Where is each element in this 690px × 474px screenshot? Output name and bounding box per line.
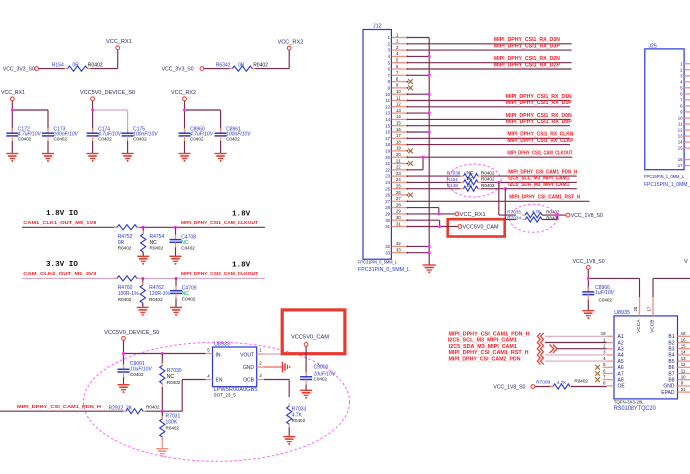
ground under C9000 — [300, 390, 312, 398]
svg-text:32: 32 — [385, 244, 390, 249]
svg-text:I2C5_SCL_M3_MIPI_CAM1: I2C5_SCL_M3_MIPI_CAM1 — [508, 176, 569, 182]
svg-text:27: 27 — [385, 199, 390, 204]
svg-text:V: V — [684, 259, 688, 265]
ground under R4754 — [137, 256, 149, 264]
svg-text:VCC5V0_DEVICE_S0: VCC5V0_DEVICE_S0 — [80, 90, 135, 96]
svg-text:0R: 0R — [238, 62, 245, 68]
highlight ellipse around U8933 circuit — [84, 342, 350, 461]
svg-text:VCC_RX2: VCC_RX2 — [171, 90, 196, 96]
wire and net label I2C5_SCL_M3_MIPI_CAM1 — [481, 176, 577, 183]
U8935 VCCA pin — [633, 297, 642, 333]
svg-text:23: 23 — [385, 174, 390, 179]
wire C9001 to ground — [123, 377, 125, 385]
net label MIPI_DPHY_CSI1_CAM_CLKOUT — [181, 220, 258, 225]
svg-text:MIPI_DPHY_CSI_CAM1_RST_H: MIPI_DPHY_CSI_CAM1_RST_H — [509, 195, 580, 201]
resistor R7030 NC (pull-up) — [160, 354, 182, 387]
svg-text:R0402: R0402 — [253, 62, 268, 68]
svg-text:R0402: R0402 — [481, 177, 495, 182]
wire VCC_3V3_S0 to VCC_RX1 — [39, 50, 118, 69]
svg-text:18: 18 — [385, 142, 390, 147]
wire OCB to R7033 — [264, 380, 290, 398]
power terminal VCC_RX1 — [1, 90, 25, 101]
capacitor C4709 NC — [170, 278, 197, 301]
svg-text:22: 22 — [385, 167, 390, 172]
U8933 footprint SOT_23_5 — [214, 393, 237, 398]
svg-text:15: 15 — [678, 146, 683, 151]
svg-text:16: 16 — [385, 130, 390, 135]
svg-text:21: 21 — [681, 387, 686, 392]
wire clock net — [22, 226, 265, 229]
svg-text:I2C5_SDA_M3_MIPI_CAM1: I2C5_SDA_M3_MIPI_CAM1 — [449, 344, 517, 350]
svg-text:R0402: R0402 — [546, 209, 560, 214]
power terminal VCC_RX2 (top) — [278, 39, 304, 50]
svg-text:VCC5V0_CAM: VCC5V0_CAM — [463, 225, 499, 231]
svg-text:10: 10 — [678, 116, 683, 121]
svg-text:C9000: C9000 — [314, 364, 329, 370]
svg-text:NC: NC — [467, 170, 474, 175]
svg-text:14: 14 — [678, 140, 683, 145]
svg-text:24: 24 — [385, 180, 390, 185]
svg-text:MIPI_DPHY_CSI1_CAM_CLKOUT: MIPI_DPHY_CSI1_CAM_CLKOUT — [181, 220, 258, 225]
svg-text:C0402: C0402 — [599, 297, 613, 302]
resistor R7031 100K (pull-down) — [160, 411, 181, 440]
wire SDA pull-up vertical — [505, 189, 516, 220]
power terminal VCC_RX2 — [171, 90, 196, 101]
ground under C8966 — [582, 311, 594, 319]
resistor R4760 100R-1% (series) — [114, 276, 140, 302]
svg-text:13: 13 — [678, 134, 683, 139]
svg-text:R7038: R7038 — [447, 171, 461, 176]
capacitor C174 — [87, 126, 122, 141]
svg-text:29: 29 — [396, 209, 401, 214]
capacitor C9000 — [300, 364, 336, 384]
svg-text:10: 10 — [385, 92, 390, 97]
svg-text:32: 32 — [396, 241, 401, 246]
svg-text:R0402: R0402 — [574, 379, 588, 384]
svg-text:R0402: R0402 — [149, 297, 163, 302]
svg-text:0R: 0R — [73, 62, 80, 68]
svg-text:C0402: C0402 — [182, 297, 196, 302]
wire VCC5V0_CAM to C9000 — [305, 346, 307, 376]
wire and net label I2C5_SCL_M3_MIPI_CAM1 (to U8935 A2) — [448, 338, 607, 344]
svg-text:21: 21 — [385, 161, 390, 166]
svg-text:17: 17 — [678, 163, 683, 168]
svg-text:20: 20 — [385, 155, 390, 160]
svg-text:MIPI_DPHY_CSI_CAM1_PDN_H: MIPI_DPHY_CSI_CAM1_PDN_H — [508, 169, 577, 175]
svg-text:R0402: R0402 — [118, 297, 132, 302]
svg-text:16: 16 — [681, 337, 686, 342]
svg-text:I2C5_SDA_M3_MIPI_CAM1: I2C5_SDA_M3_MIPI_CAM1 — [508, 182, 569, 188]
svg-text:EPAD: EPAD — [661, 390, 675, 396]
svg-text:R0402: R0402 — [146, 405, 160, 410]
wire VCC5V0_CAM from J12 pins 30/31 — [408, 220, 458, 228]
svg-text:C0402: C0402 — [133, 136, 147, 141]
svg-text:VCC_1V8_S0: VCC_1V8_S0 — [573, 259, 605, 265]
ground under C9001 — [118, 385, 130, 393]
wire MIPI_DPHY_CSI1_CAM_CLKOUT (J12 pins 20/22) — [408, 156, 573, 170]
ground under C4708 — [170, 256, 182, 264]
svg-text:4.7K: 4.7K — [557, 380, 567, 385]
svg-text:B1: B1 — [668, 334, 674, 340]
capacitor C8961 — [215, 126, 252, 141]
net label MIPI_DPHY_CSI2_CAM_CLKOUT — [181, 271, 258, 276]
U8933 pin stubs and numbers — [206, 348, 264, 380]
power terminal VCC_RX1 (top) — [106, 39, 132, 50]
resistor R7038 NC on J12 pin 23 — [408, 170, 495, 179]
wire VOUT to VCC5V0_CAM node — [264, 352, 308, 355]
svg-text:33: 33 — [385, 250, 390, 255]
svg-text:MIPI_DPHY_CSI1_RX_CLKP: MIPI_DPHY_CSI1_RX_CLKP — [507, 138, 574, 144]
svg-text:MIPI_DPHY_CSI1_RX_D3P: MIPI_DPHY_CSI1_RX_D3P — [494, 44, 561, 50]
svg-text:17: 17 — [385, 136, 390, 141]
svg-text:12: 12 — [681, 362, 686, 367]
wire and net label MIPI_DPHY_CSI1_RX_CLKN (J12 pin 17) — [408, 132, 574, 139]
svg-text:18: 18 — [396, 139, 401, 144]
svg-text:MIPI_DPHY_CSI_CAM1_PDN_H: MIPI_DPHY_CSI_CAM1_PDN_H — [17, 404, 102, 410]
U8935 B-side pins B1-B8, GND, EPAD — [661, 331, 690, 396]
wire and net label MIPI_DPHY_CSI_CAM2_PDN (to U8935 A5) — [449, 356, 607, 362]
wire R7033 to ground — [288, 427, 290, 436]
svg-text:OCB: OCB — [243, 378, 255, 384]
svg-text:15: 15 — [385, 123, 390, 128]
resistor R4754 NC (shunt) — [141, 227, 165, 255]
wire and net label I2C5_SDA_M3_MIPI_CAM1 — [481, 182, 577, 189]
off-page chevrons for U8935 inputs — [537, 333, 557, 365]
svg-text:15: 15 — [681, 344, 686, 349]
connector J25 reference — [648, 44, 657, 50]
svg-text:EN: EN — [216, 378, 223, 384]
connector J12 pin stubs with pin numbers 1-33 — [385, 32, 408, 255]
svg-text:VCC5V0_CAM: VCC5V0_CAM — [291, 335, 329, 341]
svg-text:33: 33 — [396, 248, 401, 253]
svg-text:2K: 2K — [467, 176, 474, 181]
wire VCC_RX1 from J12 pins 28/29 — [408, 208, 456, 216]
wire R4754 to ground — [142, 252, 144, 256]
svg-text:B5: B5 — [668, 359, 674, 365]
svg-text:R148: R148 — [447, 183, 459, 188]
svg-text:28: 28 — [396, 202, 401, 207]
svg-text:VCC_RX1: VCC_RX1 — [460, 212, 486, 218]
text 1.8V IO — [46, 210, 251, 219]
svg-text:VCC5V0_DEVICE_S0: VCC5V0_DEVICE_S0 — [104, 330, 159, 336]
U8933 part number LPW5R00A0GB5 — [214, 387, 258, 393]
net label VCC_3V3_S0 (second) — [162, 67, 204, 73]
ground under C175 — [122, 154, 134, 162]
resistor R154 0R — [52, 62, 103, 71]
highlight ellipse around R7038/R151/R148 — [447, 164, 501, 197]
svg-text:14: 14 — [385, 117, 390, 122]
junction SCL pull-up — [497, 181, 500, 184]
svg-text:A7: A7 — [618, 371, 624, 377]
svg-text:R2932: R2932 — [109, 405, 124, 411]
svg-text:1.8V: 1.8V — [232, 262, 251, 270]
svg-text:MIPI_DPHY_CSI1_RX_D2P: MIPI_DPHY_CSI1_RX_D2P — [494, 62, 561, 68]
svg-text:20: 20 — [633, 306, 638, 311]
wire C172 to ground — [11, 141, 13, 154]
svg-text:R0402: R0402 — [481, 183, 495, 188]
U8935 A-side pins A1-A8, OE — [601, 331, 626, 390]
ground under J12 bus — [423, 265, 436, 273]
svg-text:B6: B6 — [668, 365, 674, 371]
wire and net label MIPI_DPHY_CSI1_RX_D0P (J12 pin 15) — [408, 119, 573, 126]
svg-text:16: 16 — [396, 127, 401, 132]
svg-text:B7: B7 — [668, 371, 674, 377]
capacitor C8966 — [582, 285, 614, 302]
svg-text:12: 12 — [396, 102, 401, 107]
svg-text:29: 29 — [385, 212, 390, 217]
svg-text:R6342: R6342 — [216, 62, 231, 68]
svg-text:GND: GND — [243, 365, 255, 371]
power terminal VCC5V0_CAM (left) — [291, 335, 329, 347]
svg-text:22: 22 — [396, 165, 401, 170]
svg-text:C0402: C0402 — [314, 377, 328, 382]
svg-text:26: 26 — [385, 193, 390, 198]
capacitor C4708 NC — [170, 227, 197, 250]
svg-text:U8935: U8935 — [614, 310, 630, 316]
power terminal VCC_1V8_S0 (top of U8935 section) — [573, 259, 605, 269]
svg-text:J12: J12 — [373, 23, 382, 29]
svg-text:A4: A4 — [618, 353, 624, 359]
power terminal VCC5V0_DEVICE_S0 — [80, 90, 135, 101]
svg-text:R154: R154 — [52, 62, 64, 68]
wire R7031 to ground — [161, 437, 163, 449]
no-connect X marks on J12 pins 8,9,19,21,26 — [408, 79, 413, 197]
svg-text:18: 18 — [681, 331, 686, 336]
connector J12 body — [363, 30, 391, 260]
svg-text:A2: A2 — [618, 340, 624, 346]
resistor R6342 0R — [216, 62, 268, 71]
svg-text:VCCA: VCCA — [636, 319, 642, 333]
wire R7030 to PDN node — [161, 387, 163, 411]
svg-text:FPC31PIN_0_5MM_L: FPC31PIN_0_5MM_L — [358, 267, 410, 273]
svg-text:16: 16 — [678, 157, 683, 162]
svg-text:CAM1_CLK1_OUT_M0_1V8: CAM1_CLK1_OUT_M0_1V8 — [23, 220, 97, 225]
connector J12 reference — [373, 23, 382, 29]
svg-text:R0402: R0402 — [118, 246, 132, 251]
svg-text:C0402: C0402 — [226, 136, 240, 141]
svg-text:MIPI_DPHY_CSI1_CAM_CLKOUT: MIPI_DPHY_CSI1_CAM_CLKOUT — [507, 151, 572, 157]
svg-text:31: 31 — [385, 224, 390, 229]
IC U8935 body (RS0108YTQC20) — [614, 316, 678, 399]
wire C174 to ground — [92, 141, 94, 154]
ground (rotated) at U8933 GND — [283, 362, 291, 373]
svg-text:13: 13 — [396, 108, 401, 113]
net label VCC_1V8_S0 (pull-ups) — [566, 213, 603, 219]
net label CAM1_CLK1_OUT_M0_1V8 — [23, 220, 97, 225]
wire and net label MIPI_DPHY_CSI_CAM1_RST_H (J12 pin 27) — [408, 195, 590, 202]
capacitor C175 — [122, 126, 159, 141]
resistor R4752 0R (series) — [114, 225, 140, 251]
svg-text:VCCB: VCCB — [650, 320, 656, 333]
svg-text:17: 17 — [396, 133, 401, 138]
wire pull-ups to VCC_1V8_S0 — [542, 214, 566, 220]
wire and net label MIPI_DPHY_CSI1_RX_D2P (J12 pin 6) — [408, 62, 572, 69]
ground under C174 — [87, 154, 99, 162]
wire SCL pull-up vertical — [499, 182, 516, 215]
svg-text:R0402: R0402 — [88, 62, 103, 68]
svg-text:R0402: R0402 — [481, 170, 495, 175]
svg-text:B4: B4 — [668, 353, 674, 359]
svg-text:MIPI_DPHY_CSI_CAM2_PDN: MIPI_DPHY_CSI_CAM2_PDN — [449, 356, 521, 362]
wire and net label MIPI_DPHY_CSI1_RX_D1N (J12 pin 11) — [408, 94, 573, 101]
svg-text:C0402: C0402 — [181, 246, 195, 251]
svg-text:1uF/10V: 1uF/10V — [595, 290, 615, 296]
svg-text:14: 14 — [681, 350, 686, 355]
svg-text:13: 13 — [385, 111, 390, 116]
connector J25 body — [645, 49, 684, 170]
resistor R7034 4.7K (pull-up) — [507, 215, 560, 222]
resistor R7008 4.7K — [535, 379, 588, 390]
svg-text:C0402: C0402 — [190, 136, 204, 141]
svg-text:1.8V: 1.8V — [232, 211, 251, 219]
svg-text:RS0108YTQC20: RS0108YTQC20 — [614, 405, 656, 412]
svg-text:MIPI_DPHY_CSI1_RX_D2N: MIPI_DPHY_CSI1_RX_D2N — [494, 56, 560, 62]
svg-text:11: 11 — [396, 95, 401, 100]
net label CAM_CLK2_OUT_M1_3V3 — [23, 271, 97, 276]
svg-text:20: 20 — [396, 152, 401, 157]
resistor R7033 4.7K — [287, 403, 307, 427]
svg-text:2K: 2K — [467, 183, 474, 188]
junction SDA pull-up — [504, 187, 507, 190]
power terminal VCC5V0_DEVICE_S0 (lower) — [104, 330, 159, 341]
svg-text:IN: IN — [216, 352, 221, 358]
wire and net label MIPI_DPHY_CSI1_RX_D3N (J12 pin 2) — [408, 37, 572, 44]
connector J12 footprint labels — [358, 260, 410, 274]
op-amp U8933 regulator body — [213, 342, 257, 387]
wire C8960 to ground — [184, 141, 186, 154]
svg-text:15: 15 — [396, 121, 401, 126]
wire VCC5V0_DEVICE_S0 rail — [91, 101, 128, 133]
highlight ellipse around R7035/R7034 — [510, 204, 557, 232]
wire C8966 to ground — [587, 300, 589, 311]
wire and net label MIPI_DPHY_CSI1_RX_D3P (J12 pin 3) — [408, 44, 572, 51]
resistor R7035 4.7K (pull-up) — [507, 209, 560, 218]
wire and net label MIPI_DPHY_CSI1_RX_CLKP (J12 pin 18) — [408, 138, 575, 145]
U8935 VCCB pin — [646, 297, 655, 333]
svg-text:TQFN-3X3-20L: TQFN-3X3-20L — [614, 399, 645, 404]
svg-text:VOUT: VOUT — [240, 352, 254, 358]
svg-text:VCC_RX1: VCC_RX1 — [106, 39, 132, 45]
svg-text:A1: A1 — [618, 334, 624, 340]
wire R4762 to ground — [142, 303, 144, 307]
svg-text:24: 24 — [396, 177, 401, 182]
wire J12 ground bus — [408, 38, 431, 266]
svg-text:R7008: R7008 — [536, 380, 550, 386]
svg-text:12: 12 — [678, 128, 683, 133]
connector J25 footprint labels — [644, 174, 690, 188]
capacitor C172 — [6, 126, 41, 141]
wire C173 to ground — [47, 141, 49, 154]
svg-text:2K: 2K — [126, 405, 133, 411]
ground under C173 — [42, 154, 54, 162]
svg-text:SOT_23_5: SOT_23_5 — [214, 393, 237, 398]
net label VCC5V0_CAM (J12) — [458, 225, 499, 231]
svg-text:27: 27 — [396, 196, 401, 201]
svg-text:B8: B8 — [668, 378, 674, 384]
net label V... (right edge) — [684, 259, 688, 265]
wire and net label MIPI_DPHY_CSI1_RX_D0N (J12 pin 14) — [408, 113, 573, 120]
svg-text:VCC_RX1: VCC_RX1 — [1, 90, 25, 96]
ground under C8960 — [179, 154, 191, 162]
net label VCC_1V8_S0 (OE pull-up) — [493, 384, 534, 390]
svg-text:MIPI_DPHY_CSI1_RX_D0P: MIPI_DPHY_CSI1_RX_D0P — [506, 119, 573, 125]
svg-text:4.7K: 4.7K — [532, 209, 541, 214]
svg-text:11: 11 — [678, 122, 683, 127]
svg-text:C0402: C0402 — [18, 136, 32, 141]
svg-text:MIPI_DPHY_CSI_CAM1_PDN_H: MIPI_DPHY_CSI_CAM1_PDN_H — [449, 332, 530, 338]
svg-text:VCC_RX2: VCC_RX2 — [278, 39, 304, 45]
svg-text:13: 13 — [681, 356, 686, 361]
svg-text:25: 25 — [385, 186, 390, 191]
wire and net label MIPI_DPHY_CSI1_RX_D2N (J12 pin 5) — [408, 56, 572, 63]
svg-text:VCC_3V3_S0: VCC_3V3_S0 — [162, 67, 194, 73]
wire and net label I2C5_SDA_M3_MIPI_CAM1 (to U8935 A3) — [449, 344, 607, 350]
svg-text:19: 19 — [396, 146, 401, 151]
connector J25 pin stubs with pin numbers 1-17 — [678, 61, 690, 168]
net label VCC_RX1 (J12) — [455, 212, 486, 218]
svg-text:A5: A5 — [618, 359, 624, 365]
svg-text:A3: A3 — [618, 347, 624, 353]
svg-text:MIPI_DPHY_CSI2_CAM_CLKOUT: MIPI_DPHY_CSI2_CAM_CLKOUT — [181, 271, 258, 276]
svg-text:MIPI_DPHY_CSI1_RX_CLKN: MIPI_DPHY_CSI1_RX_CLKN — [507, 132, 573, 138]
svg-text:10: 10 — [396, 89, 401, 94]
svg-text:11: 11 — [681, 368, 686, 373]
wire and net label MIPI_DPHY_CSI1_RX_D1P (J12 pin 12) — [408, 100, 573, 107]
svg-text:VCC_1V8_S0: VCC_1V8_S0 — [571, 213, 603, 219]
wire VCC_RX2 rail — [183, 101, 221, 133]
capacitor C9001 — [118, 361, 153, 377]
svg-text:R0402: R0402 — [167, 380, 181, 385]
svg-text:MIPI_DPHY_CSI1_RX_D1P: MIPI_DPHY_CSI1_RX_D1P — [506, 100, 573, 106]
ground under R4762 — [137, 307, 149, 315]
svg-text:3.3V IO: 3.3V IO — [46, 261, 78, 269]
svg-text:MIPI_DPHY_CSI_CAM1_RST_H: MIPI_DPHY_CSI_CAM1_RST_H — [449, 350, 529, 356]
wire VCC_1V8_S0 to VCCA — [587, 269, 640, 297]
wire R7008 to OE — [571, 386, 607, 388]
svg-text:B2: B2 — [668, 340, 674, 346]
net label MIPI_DPHY_CSI_CAM1_PDN_H (left) — [17, 404, 102, 410]
net label MIPI_DPHY_CSI1_CAM_CLKOUT (J12) — [507, 151, 572, 157]
svg-text:VCC_3V3_S0: VCC_3V3_S0 — [3, 67, 35, 73]
ground under C172 — [6, 154, 18, 162]
svg-text:C0402: C0402 — [98, 136, 112, 141]
resistor R4762 120R-1% (shunt) — [140, 278, 170, 306]
svg-text:VCC_1V8_S0: VCC_1V8_S0 — [493, 384, 525, 390]
svg-text:FPC15PIN_1_0MM_L: FPC15PIN_1_0MM_L — [644, 174, 684, 180]
svg-text:B3: B3 — [668, 347, 674, 353]
wire CAM1_PDN_H — [0, 380, 206, 413]
svg-text:28: 28 — [385, 205, 390, 210]
svg-text:R7034: R7034 — [507, 215, 521, 220]
wire C4708 to ground — [175, 247, 177, 256]
svg-text:19: 19 — [601, 331, 606, 336]
ground under C4709 — [170, 307, 182, 315]
svg-text:31: 31 — [396, 221, 401, 226]
svg-text:25: 25 — [396, 184, 401, 189]
net label VCC_3V3_S0 (left) — [3, 67, 39, 73]
text 3.3V IO — [46, 261, 251, 270]
ground under R7033 — [283, 437, 295, 445]
wire clock net — [22, 277, 265, 280]
wire C8961 to ground — [220, 141, 222, 154]
svg-text:1.8V IO: 1.8V IO — [46, 210, 78, 218]
svg-text:OE: OE — [618, 384, 626, 390]
svg-text:30: 30 — [396, 215, 401, 220]
svg-text:FPC31PIN_0_5MM_L: FPC31PIN_0_5MM_L — [358, 260, 397, 266]
svg-text:19: 19 — [385, 149, 390, 154]
resistor R2932 2K (series) — [109, 405, 160, 414]
highlight box VCC5V0_CAM (J12) — [448, 219, 505, 236]
